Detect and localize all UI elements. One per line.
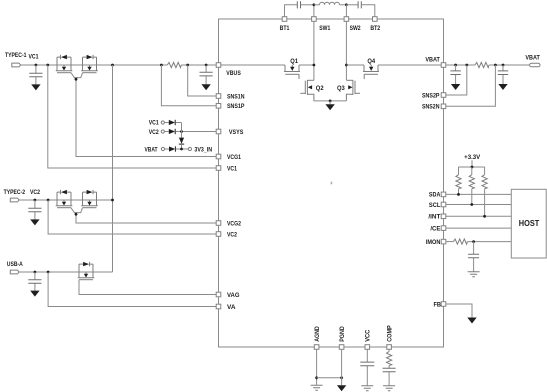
wire PGND drop [341, 349, 343, 385]
svg-text:BT1: BT1 [280, 26, 290, 32]
wire Q2/Q3 source bus [314, 100, 347, 102]
junction C1 tap [35, 64, 38, 67]
capacitor C1 [29, 73, 42, 77]
pin BT2 [373, 17, 378, 22]
junction TYPEC-2 gate node [75, 213, 78, 216]
junction IMON filter [472, 240, 475, 243]
capacitor C7 (IMON filter) [468, 254, 479, 258]
junction C4 tap [34, 271, 37, 274]
svg-text:HOST: HOST [519, 218, 540, 228]
wire C7 stub [473, 242, 475, 272]
wire VC2 to pin [48, 200, 216, 234]
svg-text:SNS1N: SNS1N [227, 94, 245, 100]
wire SNS2P run [446, 65, 467, 95]
svg-text:SCL: SCL [429, 203, 441, 209]
wire SW1 riser [313, 5, 315, 17]
wire /INT row [446, 215, 512, 217]
transistor QC1 (USB-A FET) [78, 262, 95, 280]
svg-text:Q3: Q3 [337, 86, 345, 92]
ground VBUS cap [201, 84, 210, 90]
pin VA [216, 304, 221, 309]
pin SNS2P [441, 93, 446, 98]
ground power (inside IC) [325, 104, 334, 110]
capacitor C8 (VCC) [360, 362, 374, 366]
wire C2 stub [205, 65, 207, 84]
capacitor CB1 (BT1-SW1 bootstrap) [297, 1, 300, 8]
wire SW1 column inside IC [313, 21, 315, 80]
svg-text:VBUS: VBUS [226, 71, 241, 77]
junction VA tap [47, 271, 50, 274]
svg-text:Q2: Q2 [316, 86, 324, 92]
svg-text:TYPEC-1: TYPEC-1 [5, 53, 27, 59]
pin AGND [314, 345, 319, 350]
resistor R2 (VBAT sense) [475, 62, 489, 67]
svg-text:3V3_IN: 3V3_IN [194, 148, 212, 154]
junction /INT pull-up [483, 215, 486, 218]
wire VBAT rail left [446, 64, 475, 66]
wire TYPEC-1 gate tie [71, 73, 216, 157]
wire AGND drop [316, 349, 318, 385]
wire SW2 riser [345, 5, 347, 17]
junction +3.3V node [471, 166, 474, 169]
wire FB run [446, 304, 472, 318]
resistor R4 (SCL pull-up) [471, 167, 473, 175]
pin SW2 [344, 17, 349, 22]
wire VBAT rail right [489, 64, 530, 66]
svg-text:VSYS: VSYS [229, 130, 244, 136]
pin FB [441, 302, 446, 307]
ground earth AGND [311, 385, 323, 390]
svg-text:VC1: VC1 [29, 55, 40, 61]
ground earth IMON [468, 272, 480, 277]
wire C4 stub [34, 272, 36, 291]
transistor Q1 (high-side buck FET) [284, 65, 300, 79]
wire TYPEC-1 rail [21, 64, 217, 66]
pin SCL [441, 202, 446, 207]
pin PGND [339, 345, 344, 350]
wire C6 stub [502, 65, 504, 84]
junction SW1 top node [313, 3, 316, 6]
wire SDA row [446, 193, 512, 195]
diode D2 [169, 129, 175, 134]
wire R7 to C9 [388, 366, 390, 386]
wire Q1 source to SW1 column [299, 64, 314, 66]
junction SDA pull-up [457, 193, 460, 196]
svg-text:VCG2: VCG2 [227, 221, 242, 227]
svg-text:PGND: PGND [340, 326, 346, 342]
resistor R7 (COMP) [387, 352, 392, 366]
node 3V3_IN terminal [188, 147, 191, 150]
pin /CE [441, 226, 446, 231]
pin SNS2N [441, 104, 446, 109]
wire SNS1P run [161, 65, 216, 106]
svg-text:VA: VA [227, 305, 236, 311]
wire SCL row [446, 204, 512, 206]
pin SW1 [312, 17, 317, 22]
ground earth VCC [361, 386, 373, 391]
wire SNS2N run [446, 65, 496, 106]
wire D2 to VSYS pin [175, 131, 216, 133]
wire cap CB2 to BT2 riser [362, 5, 375, 17]
capacitor C9 (COMP) [383, 368, 396, 372]
wire VBUS pin to Q1 drain [221, 64, 285, 66]
wire C5 stub [455, 65, 457, 84]
junction power ground node [329, 100, 332, 103]
junction SNS2P tap [465, 64, 468, 67]
wire USB-A gate lead to VAG pin [79, 280, 216, 295]
svg-text:Q4: Q4 [367, 59, 375, 65]
wire IMON row [467, 241, 511, 243]
junction SW2 top node [345, 3, 348, 6]
svg-text:VBAT: VBAT [145, 148, 158, 154]
wire D4 to 3V3_IN [176, 148, 189, 150]
wire USB-A rail [20, 271, 113, 273]
svg-text:VBAT: VBAT [425, 58, 440, 64]
diode D1 [169, 120, 175, 125]
junction Q4/SW2 [345, 64, 348, 67]
svg-text:SNS2N: SNS2N [422, 105, 440, 111]
wire SW2 column to Q4 drain [346, 64, 364, 66]
junction AGND tie [315, 376, 318, 379]
svg-text:SNS1P: SNS1P [227, 104, 245, 110]
junction VC2 tap [47, 199, 50, 202]
ground earth COMP [383, 386, 395, 391]
svg-text:VC1: VC1 [149, 121, 160, 127]
pin VBUS [216, 63, 221, 68]
wire SW2 column inside IC [345, 21, 347, 80]
diode D3 (down) [179, 138, 184, 144]
diode D4 [169, 146, 175, 151]
junction Q1/SW1 [313, 64, 316, 67]
transistor QA2 (TYPEC-1 back-to-back FET right) [81, 55, 98, 73]
ground TYPEC-2 [30, 219, 39, 225]
wire VCC drop [366, 349, 368, 386]
capacitor C3 [28, 208, 41, 212]
svg-text:VC2: VC2 [149, 130, 160, 136]
transistor Q2 (low-side FET SW1) [300, 80, 314, 101]
wire VA to pin [48, 272, 216, 307]
wire COMP drop [388, 349, 390, 351]
wire C3 stub [34, 200, 36, 219]
pin VAG [216, 292, 221, 297]
wire VC2 to D2 [164, 131, 168, 133]
wire C1 stub [35, 65, 37, 84]
wire stub to power ground [329, 101, 331, 104]
junction common node mid [111, 199, 114, 202]
svg-text:AGND: AGND [315, 326, 321, 342]
pin COMP [387, 345, 392, 350]
pin VCG1 [216, 154, 221, 159]
svg-text:VC1: VC1 [227, 166, 238, 172]
capacitor C6 [498, 71, 508, 75]
transistor Q3 (low-side FET SW2) [346, 80, 360, 101]
capacitor C5 [450, 71, 460, 75]
pin VC2 [216, 232, 221, 237]
junction C3 tap [34, 199, 37, 202]
svg-text:/INT: /INT [428, 215, 440, 221]
svg-text:COMP: COMP [387, 325, 393, 342]
svg-text:SW1: SW1 [319, 26, 331, 32]
inductor L1 [320, 2, 340, 5]
wire IMON stub [446, 241, 454, 243]
resistor R3 (SDA pull-up) [458, 167, 460, 175]
wire TYPEC-2 rail [20, 199, 113, 201]
svg-text:BT2: BT2 [370, 26, 380, 32]
HOST block [511, 189, 546, 258]
pin SNS1P [216, 104, 221, 109]
wire VC1 to pin [48, 65, 217, 168]
junction 3V3 bus [180, 148, 183, 151]
junction TYPEC-1 gate node [75, 78, 78, 81]
pin SNS1N [216, 94, 221, 99]
svg-text:USB-A: USB-A [7, 262, 24, 268]
wire D3 to VBAT row [181, 144, 183, 149]
resistor R6 (IMON filter) [453, 239, 467, 244]
IC U1 charger body [219, 19, 444, 347]
wire inductor to SW2 node [340, 4, 347, 6]
svg-text:VBAT: VBAT [525, 55, 540, 61]
stray artifact mark inside IC [331, 182, 333, 185]
svg-text:+3.3V: +3.3V [464, 155, 480, 161]
wire SW1 node to inductor [314, 4, 320, 6]
svg-text:VC2: VC2 [227, 232, 238, 238]
junction PGND tie [340, 376, 343, 379]
svg-text:SDA: SDA [429, 193, 441, 199]
svg-text:VCG1: VCG1 [227, 155, 242, 161]
resistor R1 (VBUS sense) [167, 62, 181, 67]
ground FB [467, 318, 476, 324]
capacitor CB2 (SW2-BT2 bootstrap) [358, 1, 361, 8]
transistor QB2 (TYPEC-2 back-to-back FET right) [81, 190, 98, 208]
svg-text:TYPEC-2: TYPEC-2 [4, 190, 26, 196]
ground C5 [451, 84, 460, 90]
pin VCG2 [216, 221, 221, 226]
transistor QA1 (TYPEC-1 back-to-back FET left) [56, 55, 73, 73]
ground USB-A [30, 291, 39, 297]
junction C5 tap [454, 64, 457, 67]
pin BT1 [282, 17, 287, 22]
wire AGND-PGND tie [317, 377, 342, 379]
pin SDA [441, 192, 446, 197]
wire /CE row [446, 227, 512, 229]
pin IMON [441, 239, 446, 244]
junction VSYS bus [180, 130, 183, 133]
junction VC1 tap [46, 64, 49, 67]
wire Q4 source to VBAT pin [378, 64, 441, 66]
wire BT1 riser to bootstrap cap [285, 5, 298, 17]
svg-text:VC2: VC2 [30, 190, 41, 196]
svg-text:SNS2P: SNS2P [422, 93, 440, 99]
transistor Q4 (high-side boost FET) [363, 65, 379, 79]
junction C2 tap [205, 64, 208, 67]
wire cap CB1 to SW1 node [301, 4, 314, 6]
capacitor C2 (VBUS) [200, 72, 213, 76]
pin VC1 [216, 166, 221, 171]
junction C6 tap [502, 64, 505, 67]
wire +3.3V stub and bar [459, 160, 485, 167]
wire VC1 to D1 [164, 122, 168, 124]
svg-text:FB: FB [434, 302, 442, 308]
capacitor C4 [28, 280, 41, 284]
ground PGND [337, 385, 346, 391]
wire SNS1N run [188, 65, 217, 96]
junction SNS1P tap [160, 64, 163, 67]
wire TYPEC-2 gate tie [71, 208, 216, 223]
ground C6 [498, 84, 507, 90]
pin /INT [441, 214, 446, 219]
junction SNS2N tap [494, 64, 497, 67]
transistor QB1 (TYPEC-2 back-to-back FET left) [56, 190, 73, 208]
pin VBAT [441, 63, 446, 68]
svg-text:VAG: VAG [227, 293, 240, 299]
svg-text:SW2: SW2 [350, 26, 362, 32]
pin VCC [365, 345, 370, 350]
wire D1 to bus [175, 122, 181, 124]
resistor R5 (INT pull-up) [484, 167, 486, 175]
junction SCL pull-up [470, 203, 473, 206]
wire VBAT to D4 [165, 148, 169, 150]
pin VSYS [216, 129, 221, 134]
wire VSYS bus vertical [181, 123, 183, 138]
svg-text:IMON: IMON [426, 240, 441, 246]
junction SNS1N tap [186, 64, 189, 67]
svg-text:VCC: VCC [366, 329, 372, 342]
wire common node column [112, 65, 114, 272]
junction common node top [111, 64, 114, 67]
svg-text:Q1: Q1 [290, 59, 298, 65]
wire SW2 node to cap CB2 [346, 4, 358, 6]
svg-text:/CE: /CE [430, 226, 440, 232]
ground TYPEC-1 [31, 84, 40, 90]
